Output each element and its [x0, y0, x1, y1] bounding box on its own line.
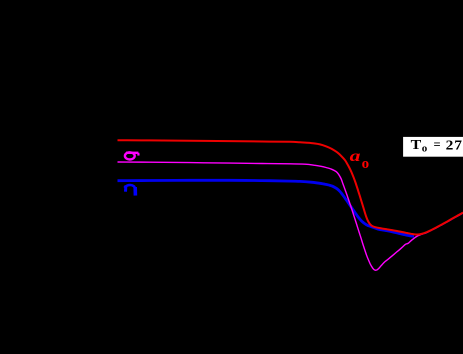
svg-text:T: T	[411, 138, 422, 153]
svg-text:a: a	[350, 148, 361, 166]
annotation box T0 = 27	[403, 136, 463, 157]
svg-text:o: o	[422, 142, 428, 154]
curve sigma (magenta)	[118, 162, 463, 270]
curve a0 (red)	[118, 140, 463, 234]
svg-text:270: 270	[446, 138, 463, 153]
label sigma (magenta)	[125, 152, 139, 159]
svg-text:o: o	[362, 156, 370, 172]
svg-text:=: =	[434, 138, 441, 152]
label eta (blue)	[124, 185, 135, 196]
annotation text T0 = 270	[411, 138, 463, 155]
curve eta (blue)	[118, 180, 415, 236]
